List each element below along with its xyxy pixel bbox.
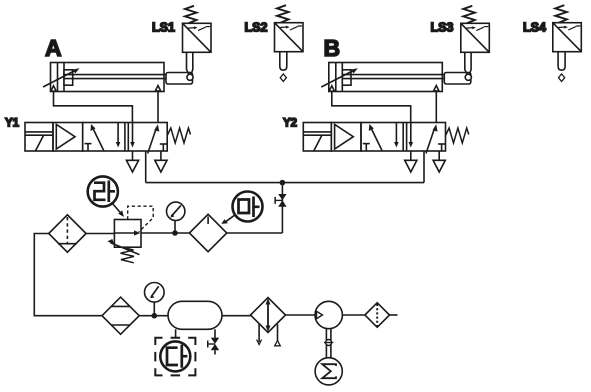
electric motor M1 <box>315 358 342 385</box>
arrow from 라 to regulator <box>113 204 124 217</box>
air receiver tank T1 <box>168 301 222 329</box>
wire regulator to filter F2 <box>141 232 189 234</box>
node gauge junction middle <box>172 230 178 236</box>
pressure gauge G1 <box>167 202 185 233</box>
wire compressor to intake filter <box>342 314 365 316</box>
label circle 다 <box>160 341 190 371</box>
wire Y1 supply port down <box>145 151 147 183</box>
drain valve V2 <box>207 338 219 351</box>
check valve V1 <box>274 194 286 207</box>
dashed box around 다 <box>155 338 195 376</box>
limit switch LS2 <box>275 5 304 81</box>
wire middle row pipe <box>227 232 283 234</box>
svg-text:A: A <box>45 35 62 61</box>
filter F2 (diamond) <box>189 214 226 251</box>
wire drain valve outlet <box>214 350 216 354</box>
svg-text:LS4: LS4 <box>523 21 546 35</box>
pressure gauge G2 <box>145 283 165 316</box>
cylinder A <box>43 63 193 92</box>
air dryer D1 (diamond with double arrow) <box>251 298 286 333</box>
svg-text:LS3: LS3 <box>431 21 454 35</box>
drive shaft <box>324 329 333 358</box>
wire filter F1 to bottom row <box>34 234 102 316</box>
dryer drain right <box>275 324 281 346</box>
cylinder B <box>321 63 471 92</box>
wire tank drain left <box>175 329 177 338</box>
dryer drain left <box>257 324 262 345</box>
svg-text:B: B <box>324 35 341 61</box>
wire supply manifold line <box>146 182 424 184</box>
valve Y1 (5/2 solenoid valve) <box>25 123 191 173</box>
aftercooler C1 (diamond with two chords) <box>102 297 139 334</box>
wire cylinder B right port to valve Y2 port 2 <box>435 91 437 123</box>
wire tank to dryer <box>222 315 251 317</box>
limit switch LS4 <box>553 5 582 81</box>
wire cooler to tank <box>139 315 168 317</box>
filter F1 (diamond with drain) <box>49 215 86 252</box>
node gauge junction bottom <box>152 313 158 319</box>
label circle 마 <box>221 192 262 224</box>
svg-text:Y2: Y2 <box>283 118 297 130</box>
wire tank drain right <box>214 329 216 337</box>
wire dryer to compressor <box>286 314 316 316</box>
wire Y2 supply port down <box>423 151 425 183</box>
label circle 라 <box>88 176 118 206</box>
intake filter F3 (diamond dotted) <box>365 303 390 328</box>
wire cylinder A right port to valve Y1 port 2 <box>157 91 159 123</box>
svg-text:Y1: Y1 <box>5 118 20 130</box>
wire junction down to middle row <box>281 183 283 233</box>
wire filter F1 to regulator <box>86 233 114 235</box>
valve Y2 (5/2 solenoid valve) <box>303 123 469 173</box>
compressor P1 <box>315 301 342 328</box>
wire cylinder A left port to valve Y1 port 4 <box>54 91 133 123</box>
wire intake stub <box>390 314 398 316</box>
limit switch LS1 <box>183 6 212 81</box>
node supply junction <box>280 180 286 186</box>
pressure regulator R1 <box>107 206 153 263</box>
svg-text:LS2: LS2 <box>245 21 268 35</box>
wire cylinder B left port to valve Y2 port 4 <box>332 91 411 123</box>
svg-text:LS1: LS1 <box>152 21 175 35</box>
limit switch LS3 <box>461 6 490 81</box>
